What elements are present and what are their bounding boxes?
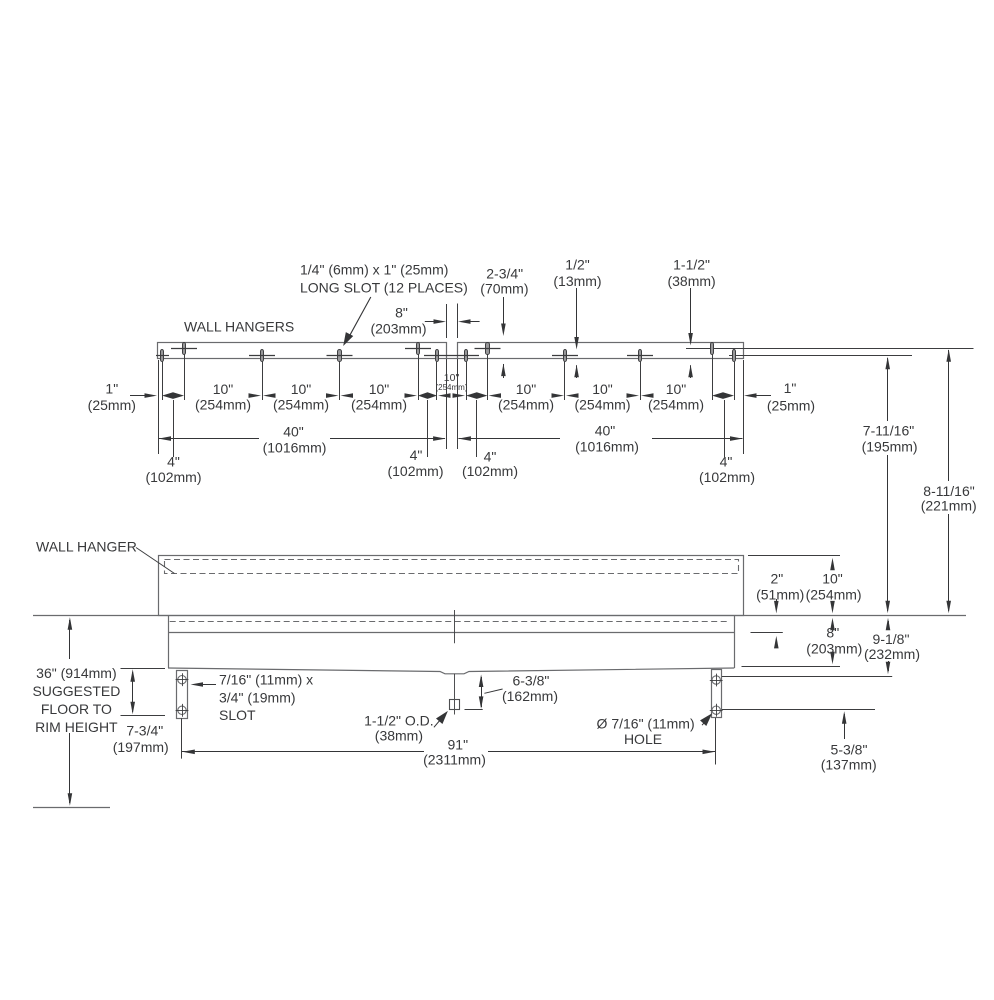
svg-text:(38mm): (38mm) [667,273,715,289]
svg-text:(203mm): (203mm) [806,640,862,656]
mounting slot at x=734 [733,350,736,362]
mounting slot at x=565 [564,350,567,362]
svg-text:10": 10" [592,381,613,397]
extension line right of drain square [465,709,483,711]
rim line (top of bowl) full width [33,615,966,617]
bracket upper hole extension line right [722,676,892,678]
1/2 dimension arrows [576,288,578,339]
dimension row: arrow at slot B-right [489,393,502,398]
8 inch dimension arrows right [832,622,834,625]
mounting slot at x=437 [436,350,439,362]
bar outer end extension line right [743,360,745,454]
svg-text:(221mm): (221mm) [921,497,977,513]
svg-text:4": 4" [720,454,733,470]
dimension row: bowtie arrows at slot C [249,393,262,398]
merged tick line across bar gap [424,355,479,357]
bar inner end extension line right of gap [457,304,459,339]
mounting slot at x=466 [465,350,468,362]
svg-text:RIM HEIGHT: RIM HEIGHT [35,719,118,735]
apron bottom extension line right [742,666,841,668]
svg-text:6-3/8": 6-3/8" [512,672,549,688]
deck band bottom line [168,632,734,634]
svg-text:(102mm): (102mm) [387,463,443,479]
extension line below right bracket [715,718,717,765]
sink backsplash rectangle (front view) [159,556,744,616]
short extension of deck bottom line right [751,632,783,634]
svg-text:(254mm): (254mm) [498,396,554,412]
mounting slot at x=418 [417,343,420,355]
deck left edge [168,616,170,669]
left mounting bracket [177,671,188,719]
drain square 1-1/2 OD [450,700,460,710]
svg-text:40": 40" [283,423,304,439]
bar inner end extension line left of gap [446,304,448,338]
dimension row: bowtie arrows at slot D [326,393,339,398]
floor line [33,807,110,809]
mounting slot at x=640 [639,350,642,362]
svg-text:9-1/8": 9-1/8" [873,631,910,647]
wall hanger bar left (top view) [158,343,447,359]
svg-text:WALL HANGER: WALL HANGER [36,538,137,554]
svg-text:(102mm): (102mm) [462,463,518,479]
7-3/4 dimension extension lines [121,668,166,670]
long extension line from upper slot row to right edge [686,348,974,350]
mounting slot at x=339.5 [338,350,342,362]
svg-text:8": 8" [395,304,408,320]
dimension row: 1 inch left outside arrow [130,395,147,397]
svg-text:1/2": 1/2" [565,257,589,273]
bar bottom edge segment across gap [447,358,458,360]
svg-text:4": 4" [167,454,180,470]
svg-text:(197mm): (197mm) [113,739,169,755]
svg-text:4": 4" [484,448,497,464]
svg-text:1": 1" [105,381,118,397]
mounting slot at x=162 [161,350,164,362]
mounting slot at x=712 [711,343,714,355]
7-3/4 dimension arrows [132,672,134,712]
svg-text:8": 8" [826,624,839,640]
bracket lower hole extension line right [722,709,875,711]
6-3/8 dimension arrows [481,677,483,707]
svg-text:(13mm): (13mm) [553,273,601,289]
apron sloped bottom with drain boss [168,668,734,674]
2 inch dimension arrows [776,599,778,603]
hidden dashed line in deck band [170,621,728,623]
svg-text:(254mm): (254mm) [351,396,407,412]
7-11/16 dimension vertical [887,358,889,421]
svg-text:(38mm): (38mm) [375,727,423,743]
right bracket holes [712,676,720,684]
svg-text:(1016mm): (1016mm) [575,438,639,454]
dimension row: arrow at slot E [405,393,418,398]
extension of backsplash top line right [748,555,840,557]
mounting slot at x=184 [183,343,186,355]
svg-text:HOLE: HOLE [624,731,662,747]
4 inch leader lines [173,400,175,457]
svg-text:10": 10" [213,381,234,397]
dimension row: center 10 inch inward arrows [438,393,451,398]
svg-text:SLOT: SLOT [219,707,256,723]
40 inch dimension right [458,438,560,440]
center line marks [454,610,456,643]
svg-text:(254mm): (254mm) [574,396,630,412]
deck right edge [734,616,736,669]
svg-text:2-3/4": 2-3/4" [486,265,523,281]
mounting slot at x=487.5 [486,343,490,355]
5-3/8 dimension arrow [844,714,846,739]
svg-text:(232mm): (232mm) [864,646,920,662]
extension line below left bracket [181,718,183,758]
dimension row: diamond between slots 5-6 left bar [418,392,437,399]
svg-text:(162mm): (162mm) [502,688,558,704]
svg-text:(102mm): (102mm) [699,469,755,485]
svg-text:(254mm): (254mm) [195,396,251,412]
svg-text:(51mm): (51mm) [756,587,804,603]
dimension row: 1 inch right outside arrow [755,395,772,397]
svg-text:(254mm): (254mm) [648,396,704,412]
svg-text:7-3/4": 7-3/4" [126,722,163,738]
svg-text:(254mm): (254mm) [806,587,862,603]
1-1/2 dimension arrows [690,288,692,335]
svg-text:(137mm): (137mm) [821,756,877,772]
dimension row: diamond between slots 1-2 right bar [466,392,488,399]
wall hanger bar right (top view) [458,343,744,359]
svg-text:(1016mm): (1016mm) [263,439,327,455]
svg-text:10": 10" [822,570,843,586]
svg-text:10": 10" [291,381,312,397]
svg-text:10": 10" [666,381,687,397]
svg-text:7-11/16": 7-11/16" [863,423,914,439]
svg-text:4": 4" [410,447,423,463]
svg-text:1": 1" [784,380,797,396]
svg-text:36" (914mm): 36" (914mm) [36,665,116,681]
svg-text:WALL HANGERS: WALL HANGERS [184,318,294,334]
svg-text:1-1/2" O.D.: 1-1/2" O.D. [364,712,434,728]
dimension row: bowtie arrows at slot C-right [552,393,565,398]
8-11/16 dimension vertical [948,350,950,481]
dimension row: bowtie arrows at slot D-right [627,393,640,398]
slot extension lines down to dimension row [162,362,164,400]
svg-text:(2311mm): (2311mm) [423,751,486,767]
svg-text:LONG SLOT (12 PLACES): LONG SLOT (12 PLACES) [300,279,468,295]
2-3/4 dimension arrows [503,297,505,325]
bar outer end extension line left [158,360,160,454]
36 inch floor-to-rim dimension [69,620,71,659]
9-1/8 dimension arrows [888,621,890,630]
svg-text:10": 10" [516,381,537,397]
svg-text:Ø 7/16" (11mm): Ø 7/16" (11mm) [597,715,695,731]
svg-text:SUGGESTED: SUGGESTED [32,683,120,699]
svg-text:3/4" (19mm): 3/4" (19mm) [219,689,296,705]
svg-text:FLOOR TO: FLOOR TO [41,701,112,717]
svg-text:1-1/2": 1-1/2" [673,257,710,273]
svg-text:1/4" (6mm) x 1" (25mm): 1/4" (6mm) x 1" (25mm) [300,261,448,277]
svg-text:2": 2" [771,570,784,586]
8 inch dimension arrows at gap [425,321,436,323]
svg-text:(254mm): (254mm) [435,383,467,392]
dimension row: diamond between slots 1-2 left bar [162,392,184,399]
hidden wall hanger dashed rectangle [165,560,739,574]
svg-text:5-3/8": 5-3/8" [831,741,868,757]
svg-text:40": 40" [595,422,616,438]
10 inch dimension arrows right [832,568,834,570]
long extension line from lower slot row to right edge [729,355,912,357]
svg-text:91": 91" [448,736,469,752]
svg-text:(102mm): (102mm) [145,469,201,485]
right mounting bracket [712,670,722,718]
svg-text:(25mm): (25mm) [767,398,815,414]
svg-text:(195mm): (195mm) [862,438,918,454]
91 inch dimension line [182,751,424,753]
svg-text:(254mm): (254mm) [273,396,329,412]
40 inch dimension left [159,438,259,440]
svg-text:(203mm): (203mm) [370,320,426,336]
mounting slot at x=262 [261,350,264,362]
svg-text:(25mm): (25mm) [88,397,136,413]
svg-text:(70mm): (70mm) [480,281,528,297]
dimension row: diamond between slots 5-6 right bar [712,392,734,399]
svg-text:10": 10" [369,381,390,397]
left bracket holes [178,676,186,684]
leader line from LONG SLOT label to slot [347,297,371,341]
svg-text:7/16" (11mm) x: 7/16" (11mm) x [219,672,313,688]
